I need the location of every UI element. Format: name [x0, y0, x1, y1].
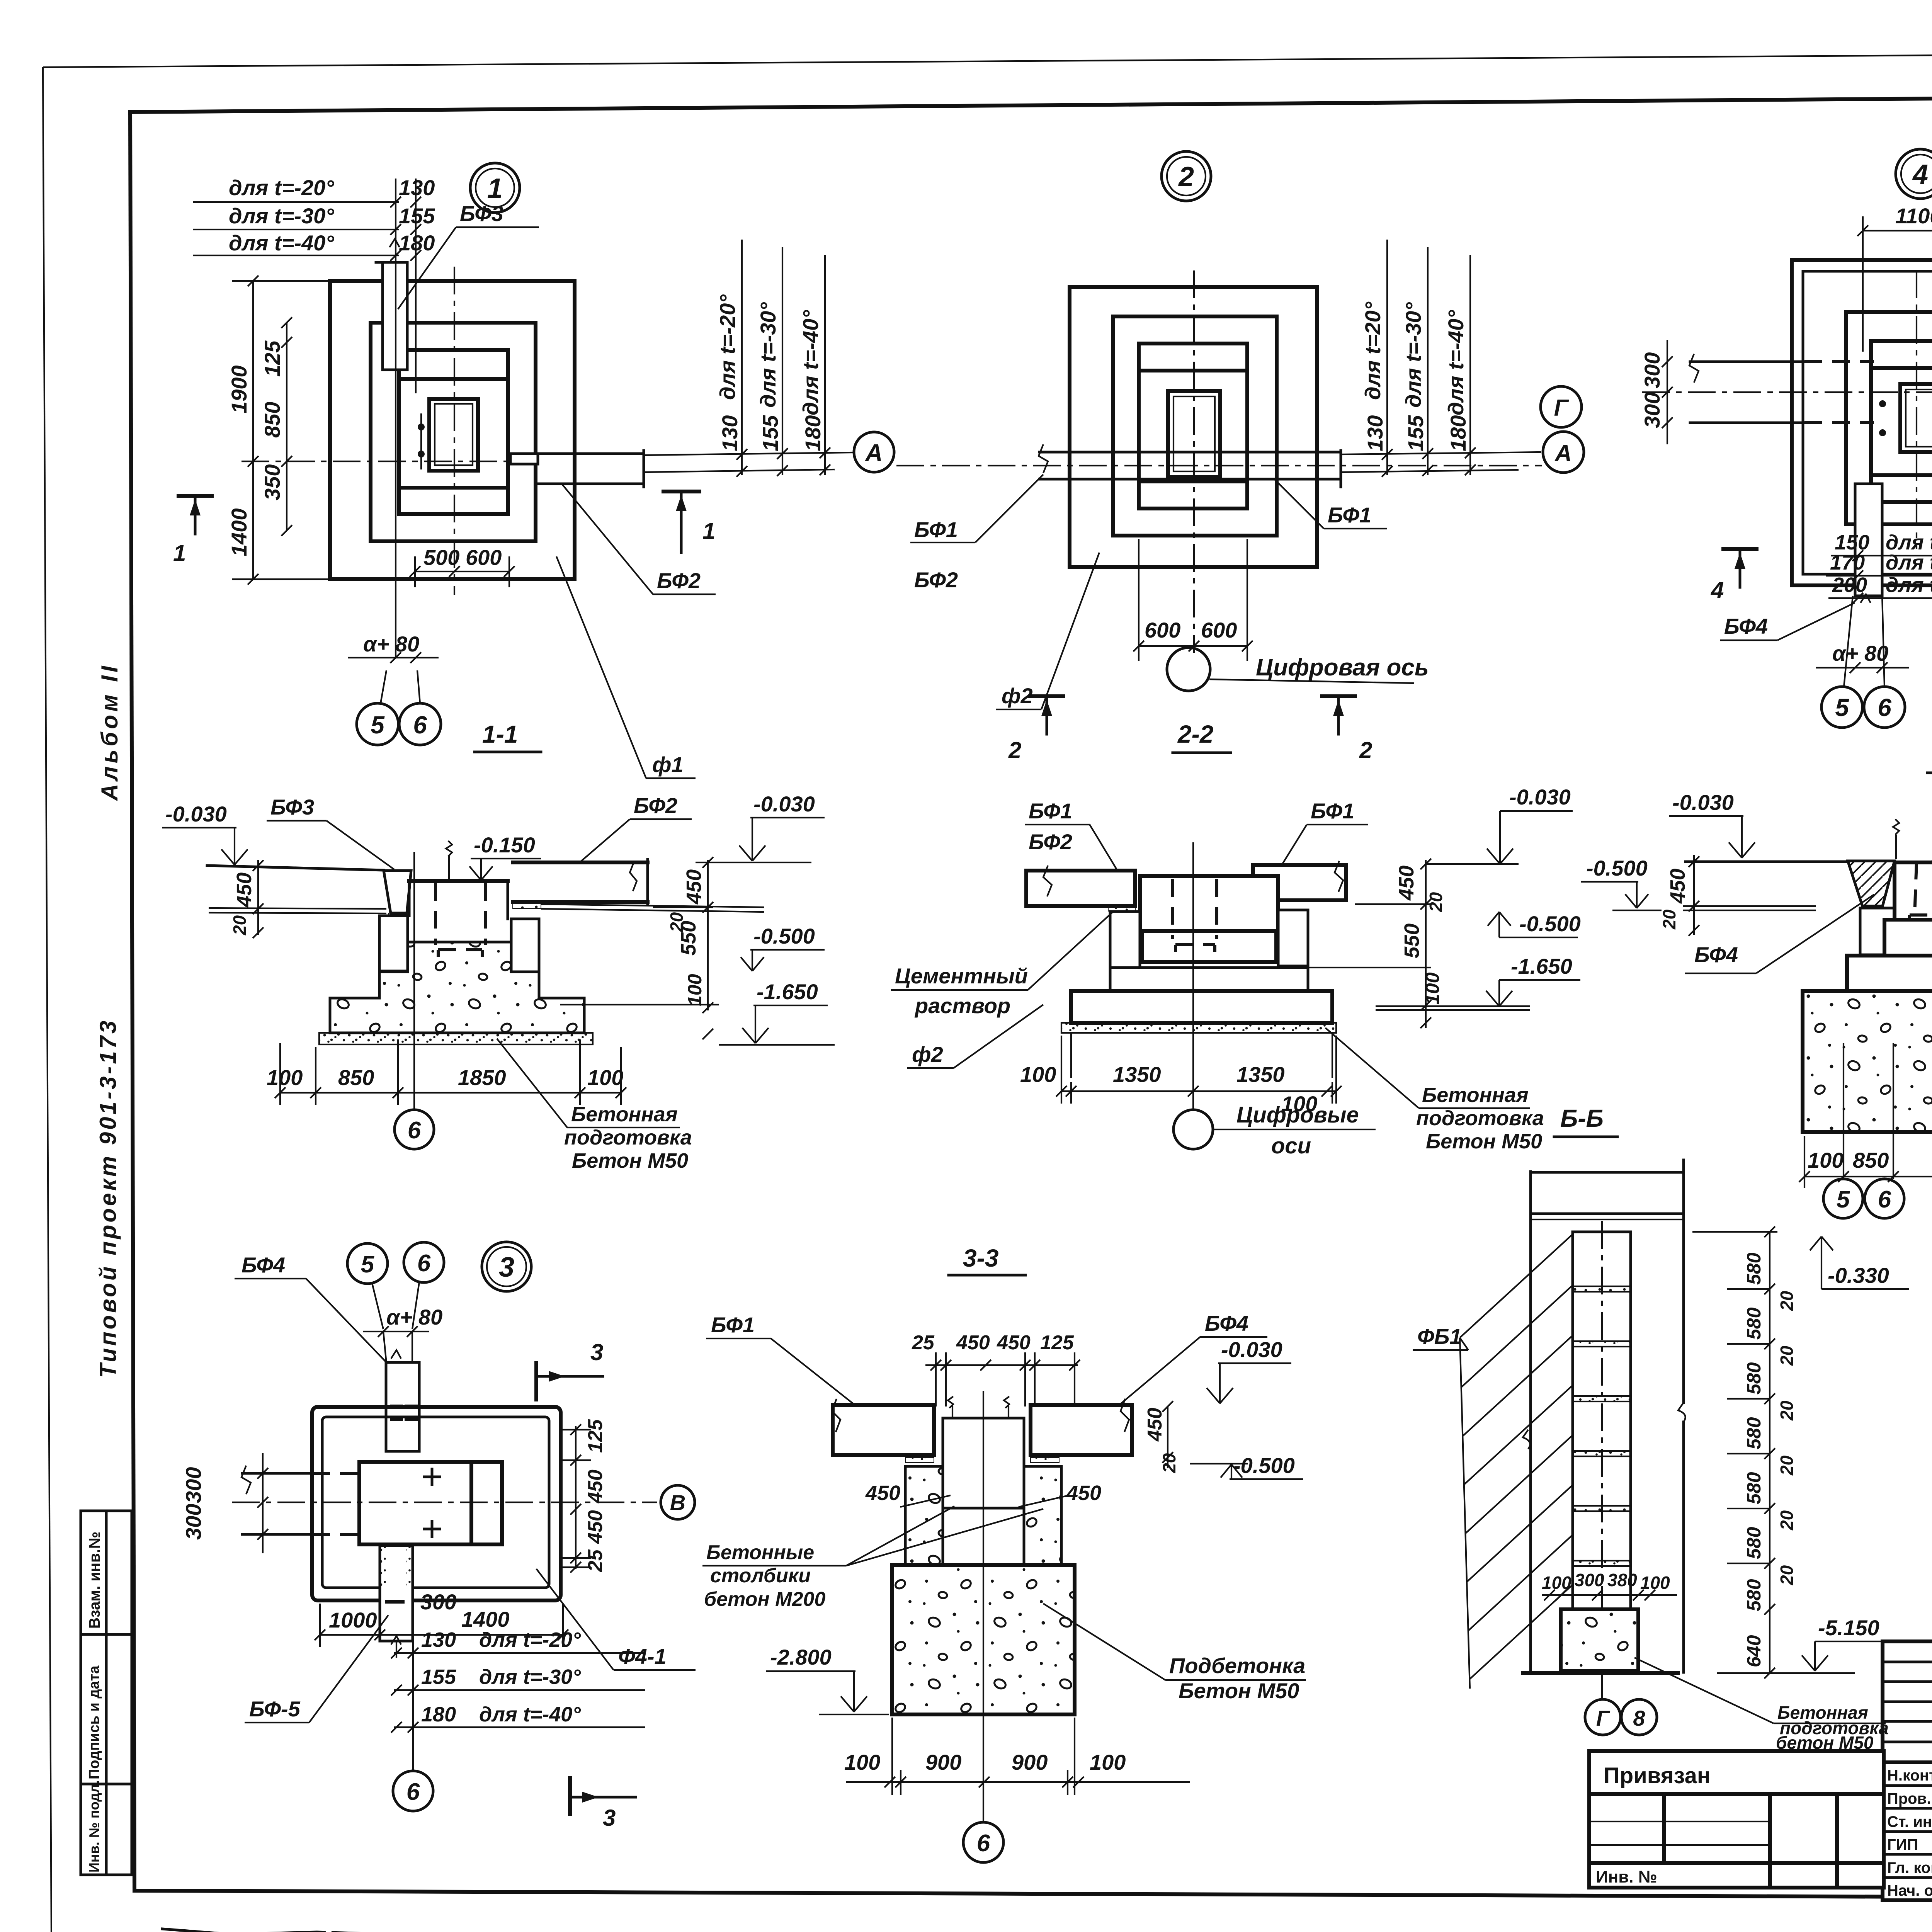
beam across: [1039, 444, 1341, 479]
svg-text:5: 5: [1837, 1186, 1850, 1213]
label БФ4: [235, 1253, 387, 1363]
svg-text:2: 2: [1178, 162, 1194, 192]
svg-text:для t=-30°: для t=-30°: [229, 204, 334, 228]
level -1.650: [719, 980, 835, 1045]
svg-text:БФ4: БФ4: [1724, 614, 1768, 638]
centre line: [413, 852, 415, 1110]
svg-text:850: 850: [260, 402, 284, 438]
centre line: [983, 1391, 984, 1822]
svg-text:900: 900: [1012, 1750, 1048, 1774]
axis bubble Б: [395, 1110, 434, 1149]
label БФ4: [1685, 895, 1874, 973]
svg-text:580: 580: [1743, 1527, 1765, 1559]
svg-text:бетон М50: бетон М50: [1776, 1733, 1874, 1753]
svg-text:для t=-40°: для t=-40°: [479, 1703, 581, 1726]
level -2.800: [766, 1645, 889, 1714]
svg-text:155: 155: [399, 204, 435, 228]
svg-text:100: 100: [844, 1750, 880, 1774]
dims 100/300/380/100: [1542, 1570, 1677, 1600]
block ring: [1846, 312, 1932, 524]
svg-text:2-2: 2-2: [1177, 720, 1214, 748]
label БФ3: [267, 795, 394, 869]
svg-text:для t=-30°: для t=-30°: [1401, 302, 1425, 408]
svg-text:-0.030: -0.030: [753, 792, 815, 816]
svg-text:850: 850: [338, 1065, 374, 1090]
svg-text:1850: 1850: [458, 1065, 506, 1090]
svg-text:100: 100: [267, 1065, 303, 1090]
title 1-1: [474, 720, 541, 752]
svg-text:350: 350: [260, 464, 284, 500]
svg-text:-0.030: -0.030: [1221, 1337, 1282, 1362]
bottom dims 100/850/1850/100: [267, 1039, 626, 1105]
svg-text:БФ4: БФ4: [1694, 942, 1738, 967]
svg-text:450: 450: [233, 872, 256, 908]
svg-text:180: 180: [1446, 415, 1470, 451]
slab Ф1 outline: [330, 281, 575, 579]
title 4-4: [1927, 741, 1932, 773]
label БФ1 right: [1279, 799, 1368, 869]
svg-text:580: 580: [1743, 1472, 1765, 1504]
svg-text:Н.контр.: Н.контр.: [1887, 1767, 1932, 1784]
temperature table rows: [193, 175, 435, 255]
svg-text:-2.800: -2.800: [770, 1645, 832, 1669]
svg-text:-0.330: -0.330: [1828, 1263, 1889, 1287]
concrete posts: [865, 1466, 1101, 1565]
svg-text:для t=-20°: для t=-20°: [229, 175, 334, 200]
beam entering left: [241, 1466, 359, 1534]
floor line left: [207, 866, 386, 913]
concrete footing: [330, 942, 584, 1033]
svg-text:6: 6: [413, 711, 427, 739]
svg-text:2: 2: [1359, 737, 1372, 763]
svg-text:450: 450: [865, 1481, 900, 1505]
label БФ2: [561, 483, 716, 594]
beam left: [1026, 866, 1135, 911]
section mark 3 top: [536, 1339, 603, 1400]
big footing: [1803, 991, 1932, 1132]
top column stub: [386, 1350, 419, 1451]
svg-text:-0.500: -0.500: [753, 924, 815, 948]
svg-text:20: 20: [1777, 1345, 1797, 1366]
svg-text:6: 6: [1878, 694, 1891, 721]
pedestal block: [1140, 876, 1278, 962]
svg-text:100: 100: [684, 974, 706, 1006]
level -5.150: [1717, 1616, 1889, 1673]
svg-text:20: 20: [1659, 909, 1679, 930]
svg-text:155: 155: [421, 1665, 456, 1689]
column: [943, 1396, 1024, 1565]
label БФ2: [580, 793, 692, 862]
level -0.500: [560, 924, 825, 1005]
svg-text:Бетон М50: Бетон М50: [1426, 1130, 1542, 1153]
label БФ1 БФ2 left: [1025, 799, 1117, 869]
svg-text:Бетонная: Бетонная: [571, 1103, 678, 1126]
footing slab: [1071, 991, 1332, 1023]
axis bubble 6 below: [393, 1771, 433, 1811]
svg-text:Гл. конст.: Гл. конст.: [1887, 1859, 1932, 1876]
svg-text:Бетон М50: Бетон М50: [572, 1149, 688, 1172]
svg-text:150: 150: [1835, 531, 1869, 554]
svg-text:БФ3: БФ3: [460, 201, 503, 226]
level -0.150: [469, 833, 541, 880]
inner ring: [1139, 344, 1247, 509]
svg-text:Подбетонка: Подбетонка: [1169, 1653, 1305, 1678]
svg-text:подготовка: подготовка: [564, 1126, 692, 1149]
svg-text:-0.030: -0.030: [1672, 790, 1734, 815]
svg-text:Пров.: Пров.: [1887, 1790, 1931, 1807]
bedding label: [497, 1039, 692, 1172]
svg-text:Нач. отд.: Нач. отд.: [1887, 1882, 1932, 1899]
label cement mortar: [891, 912, 1113, 1018]
left dim 450/20: [1659, 855, 1699, 936]
svg-text:1350: 1350: [1236, 1062, 1285, 1087]
svg-text:БФ1: БФ1: [1328, 503, 1371, 527]
svg-text:25: 25: [584, 1549, 607, 1572]
svg-text:125: 125: [584, 1419, 607, 1453]
bottom dim 600/600: [1133, 539, 1253, 661]
svg-text:Цифровые: Цифровые: [1236, 1102, 1359, 1128]
axis circles 5 and 6: [357, 670, 441, 745]
svg-text:300: 300: [181, 1504, 206, 1540]
slab ф2 outline: [1070, 287, 1317, 567]
svg-text:580: 580: [1743, 1362, 1765, 1395]
dim column right of node2: [1341, 240, 1541, 487]
svg-text:ГИП: ГИП: [1887, 1836, 1918, 1853]
column socket: [1168, 391, 1220, 477]
section mark 2 left: [1008, 696, 1063, 763]
svg-text:для t=-40°: для t=-40°: [1886, 573, 1932, 597]
svg-text:для t=-20°: для t=-20°: [715, 294, 740, 400]
svg-text:4: 4: [1711, 577, 1724, 603]
level -0.030 left: [162, 802, 248, 865]
label Ф4-1: [536, 1569, 696, 1670]
svg-text:3: 3: [499, 1252, 514, 1283]
axis bubbles Г and 8: [1585, 1673, 1657, 1735]
right dim 450/20/550: [653, 857, 713, 1013]
svg-text:Типовой проект 901-3-173: Типовой проект 901-3-173: [95, 1019, 121, 1378]
label Бетонные столбики: [702, 1506, 1043, 1611]
svg-text:Инв. №: Инв. №: [1596, 1867, 1657, 1886]
level -0.330: [1810, 1236, 1909, 1289]
svg-text:20: 20: [230, 915, 250, 935]
label ф1: [556, 556, 696, 778]
svg-text:В: В: [670, 1490, 685, 1515]
dim column right of node1: [644, 240, 853, 477]
svg-text:Взам. инв.№: Взам. инв.№: [86, 1532, 103, 1629]
svg-text:6: 6: [408, 1117, 421, 1144]
level -0.030 right: [696, 792, 825, 862]
axis circles 5 and 6 node4: [1821, 596, 1905, 728]
svg-text:столбики: столбики: [710, 1565, 811, 1587]
left dim 300/300: [1640, 340, 1673, 444]
level -0.500 lower: [1488, 912, 1581, 937]
dim a+80: [363, 1305, 442, 1363]
svg-text:БФ1: БФ1: [1311, 799, 1354, 823]
svg-text:20: 20: [1777, 1510, 1797, 1531]
svg-text:180: 180: [421, 1703, 456, 1726]
column stub БФ3: [376, 239, 407, 370]
axis bubble В: [661, 1485, 695, 1519]
svg-text:450: 450: [584, 1510, 607, 1544]
svg-text:БФ2: БФ2: [914, 568, 958, 592]
node marker circle 2: [1162, 151, 1211, 201]
svg-text:25: 25: [912, 1332, 935, 1354]
svg-text:для t=-30°: для t=-30°: [756, 302, 780, 408]
svg-text:600: 600: [1201, 618, 1237, 642]
bedding slab: [319, 1033, 593, 1044]
svg-text:БФ2: БФ2: [634, 793, 677, 818]
centre lines: [896, 270, 1542, 653]
dim a+80: [348, 632, 439, 663]
svg-text:640: 640: [1743, 1635, 1765, 1667]
svg-text:450: 450: [1144, 1408, 1166, 1442]
svg-text:550: 550: [1400, 923, 1423, 958]
svg-text:6: 6: [977, 1830, 990, 1857]
svg-text:100: 100: [1090, 1750, 1126, 1774]
level -0.030: [1426, 785, 1573, 864]
svg-text:20: 20: [1777, 1400, 1797, 1421]
section mark 1 left: [173, 496, 212, 566]
slab Ф4-1 double outline: [312, 1407, 561, 1600]
centre line: [232, 1502, 657, 1503]
node marker circle 4: [1896, 149, 1932, 199]
bottom dims 100/850/1850/100: [1799, 1043, 1932, 1188]
wall hatch wing: [1460, 1235, 1572, 1689]
label БФ1 БФ2 left: [910, 474, 1043, 592]
signature rows text: [1887, 1767, 1932, 1899]
cup cavity dashed: [435, 883, 486, 957]
column socket: [429, 399, 478, 471]
block БФ3 trapezoid: [384, 871, 411, 918]
digital axes bubble: [1173, 1102, 1376, 1158]
anchor bolt: [446, 841, 452, 880]
temperature rows node3: [391, 1628, 645, 1770]
stub extension lines: [390, 179, 421, 657]
svg-text:Бетонная: Бетонная: [1422, 1083, 1529, 1107]
label БФ1 right: [1275, 480, 1387, 529]
title 2-2: [1173, 720, 1231, 753]
beam right: [1253, 861, 1346, 909]
central block: [359, 1462, 502, 1544]
inner ring: [399, 350, 508, 514]
svg-text:600: 600: [466, 545, 502, 570]
svg-text:450: 450: [1666, 869, 1689, 904]
beam entering left: [1689, 354, 1874, 423]
bedding label: [1634, 1658, 1889, 1753]
svg-text:1400: 1400: [227, 508, 251, 556]
svg-text:580: 580: [1743, 1252, 1765, 1285]
svg-text:6: 6: [406, 1779, 420, 1805]
svg-text:5: 5: [371, 711, 385, 739]
left dim 450/20: [230, 860, 264, 938]
left beam: [832, 1399, 934, 1455]
top dim 1100/750: [1857, 204, 1932, 352]
level -1.650: [1376, 954, 1580, 1010]
svg-text:для t=-40°: для t=-40°: [229, 231, 334, 255]
svg-text:А: А: [1554, 440, 1571, 466]
svg-text:Г: Г: [1596, 1706, 1611, 1730]
label ф2: [907, 1005, 1043, 1068]
svg-text:300: 300: [181, 1467, 206, 1503]
svg-text:-1.650: -1.650: [757, 980, 818, 1004]
pit walls: [1071, 1033, 1332, 1078]
dim column 580/20/640: [1692, 1226, 1797, 1679]
label БФ1: [706, 1313, 862, 1410]
svg-text:155: 155: [1403, 415, 1428, 451]
svg-text:1000: 1000: [329, 1608, 377, 1632]
column stub БФ4: [1855, 484, 1882, 603]
slab ф3 double outline: [1792, 260, 1932, 585]
svg-text:ФБ1: ФБ1: [1417, 1324, 1462, 1349]
svg-text:-0.150: -0.150: [474, 833, 535, 857]
svg-text:5: 5: [1835, 694, 1849, 721]
label БФ3: [398, 201, 539, 309]
svg-text:450: 450: [1395, 866, 1418, 901]
cup side walls: [1110, 910, 1308, 991]
svg-text:1: 1: [702, 518, 715, 544]
svg-text:3: 3: [603, 1805, 616, 1831]
centre lines: [241, 267, 510, 595]
svg-text:20: 20: [1426, 892, 1446, 912]
svg-text:Ст. инж.: Ст. инж.: [1887, 1813, 1932, 1830]
svg-text:6: 6: [1878, 1186, 1891, 1213]
bottom dims 100/1350/1350/100: [1020, 1036, 1342, 1116]
svg-text:1: 1: [487, 173, 503, 204]
svg-text:100: 100: [1020, 1062, 1056, 1087]
svg-text:для t=-40°: для t=-40°: [1444, 310, 1468, 415]
block ring: [1113, 316, 1277, 536]
footing block: [1561, 1609, 1638, 1671]
block БФ2 ring: [371, 323, 536, 541]
section mark 2 right: [1322, 696, 1372, 763]
label БФ-5: [245, 1615, 388, 1723]
svg-text:БФ4: БФ4: [241, 1253, 285, 1277]
svg-text:450: 450: [682, 869, 706, 905]
floor line left: [1683, 862, 1848, 910]
left dim 125/850/350: [260, 317, 292, 536]
level -0.030: [1669, 790, 1755, 858]
svg-text:850: 850: [1853, 1148, 1889, 1172]
svg-text:1100: 1100: [1895, 204, 1932, 228]
svg-text:-5.150: -5.150: [1818, 1616, 1879, 1640]
svg-text:-0.500: -0.500: [1233, 1453, 1295, 1478]
svg-text:300: 300: [1640, 352, 1664, 388]
svg-text:-0.030: -0.030: [1509, 785, 1571, 809]
svg-text:подготовка: подготовка: [1416, 1107, 1544, 1130]
svg-text:1-1: 1-1: [482, 720, 518, 748]
beam БФ2 right: [513, 859, 764, 912]
svg-text:450: 450: [997, 1332, 1031, 1354]
svg-text:2: 2: [1008, 737, 1021, 763]
svg-text:580: 580: [1743, 1307, 1765, 1340]
dim 100 rotated: [684, 974, 713, 1039]
main stamp outline: [1883, 1641, 1932, 1900]
svg-text:20: 20: [1777, 1565, 1797, 1585]
svg-text:900: 900: [925, 1750, 961, 1774]
svg-text:ф2: ф2: [1002, 684, 1033, 708]
left dim 1900/1400: [227, 276, 332, 585]
svg-text:1: 1: [173, 540, 186, 566]
svg-text:Бетон М50: Бетон М50: [1179, 1679, 1299, 1703]
margin boxes: [81, 1511, 132, 1875]
svg-text:125: 125: [1040, 1332, 1074, 1354]
ground line: [1523, 1671, 1678, 1675]
section mark 4 left: [1711, 549, 1757, 603]
svg-text:Б-Б: Б-Б: [1560, 1104, 1604, 1132]
svg-text:α+ 80: α+ 80: [386, 1305, 442, 1329]
bottom column stub БФ-5: [380, 1546, 413, 1645]
svg-text:20: 20: [1777, 1455, 1797, 1476]
svg-text:для t=-20°: для t=-20°: [1886, 531, 1932, 554]
cup walls: [379, 881, 539, 972]
svg-text:А: А: [865, 440, 883, 466]
right dim 125/450/450/25: [561, 1419, 607, 1573]
section mark 1 right: [663, 492, 715, 553]
svg-text:1900: 1900: [227, 365, 251, 413]
cup block: [1884, 862, 1932, 956]
svg-text:3-3: 3-3: [963, 1244, 999, 1272]
anchor dots: [1879, 400, 1886, 436]
svg-text:600: 600: [1145, 618, 1180, 642]
svg-text:4: 4: [1912, 159, 1928, 190]
svg-text:БФ4: БФ4: [1205, 1311, 1248, 1335]
beam БФ to node 2: [510, 451, 644, 487]
svg-text:для t=-20°: для t=-20°: [479, 1628, 581, 1651]
svg-text:100: 100: [587, 1065, 623, 1090]
svg-text:125: 125: [260, 340, 284, 377]
node marker circle 1: [470, 163, 520, 213]
svg-text:α+ 80: α+ 80: [1832, 641, 1888, 665]
svg-text:Альбом II: Альбом II: [97, 663, 122, 801]
footing: [892, 1565, 1075, 1714]
svg-text:20: 20: [1777, 1291, 1797, 1311]
axis bubble А: [854, 432, 894, 472]
svg-text:180: 180: [399, 231, 435, 255]
svg-text:180: 180: [801, 415, 825, 451]
svg-text:бетон М200: бетон М200: [704, 1588, 825, 1611]
svg-text:130: 130: [421, 1628, 456, 1651]
svg-text:300: 300: [420, 1590, 456, 1614]
axis bubble 6: [963, 1822, 1003, 1862]
svg-text:-0.030: -0.030: [165, 802, 227, 826]
top dims 25/450/450/125: [912, 1332, 1080, 1406]
svg-text:для t=-30°: для t=-30°: [479, 1665, 581, 1689]
svg-text:100: 100: [1422, 972, 1443, 1005]
svg-text:5: 5: [361, 1251, 375, 1278]
svg-text:БФ2: БФ2: [657, 568, 701, 593]
dim a+80 node4: [1816, 641, 1909, 673]
bottom dims 1000/1400: [315, 1604, 568, 1647]
block column: [1573, 1232, 1631, 1609]
svg-text:БФ1: БФ1: [1029, 799, 1072, 823]
svg-text:ф2: ф2: [912, 1042, 943, 1066]
digital axis bubble: [1167, 648, 1429, 691]
svg-text:1350: 1350: [1113, 1062, 1161, 1087]
svg-text:Подпись и дата: Подпись и дата: [86, 1665, 102, 1779]
bottom dim 500/600: [410, 545, 515, 587]
svg-text:Цементный: Цементный: [895, 964, 1028, 988]
svg-text:300: 300: [1640, 392, 1664, 428]
centre lines: [1642, 270, 1932, 549]
svg-text:450: 450: [584, 1469, 607, 1503]
svg-text:Г: Г: [1554, 395, 1570, 421]
axis bubbles 5 and 6: [1823, 1179, 1904, 1218]
torn bottom edge: [162, 1929, 1932, 1932]
svg-text:8: 8: [1633, 1706, 1645, 1730]
mortar strips: [905, 1458, 1059, 1463]
label ф2: [996, 553, 1099, 709]
svg-text:ф1: ф1: [652, 752, 684, 777]
